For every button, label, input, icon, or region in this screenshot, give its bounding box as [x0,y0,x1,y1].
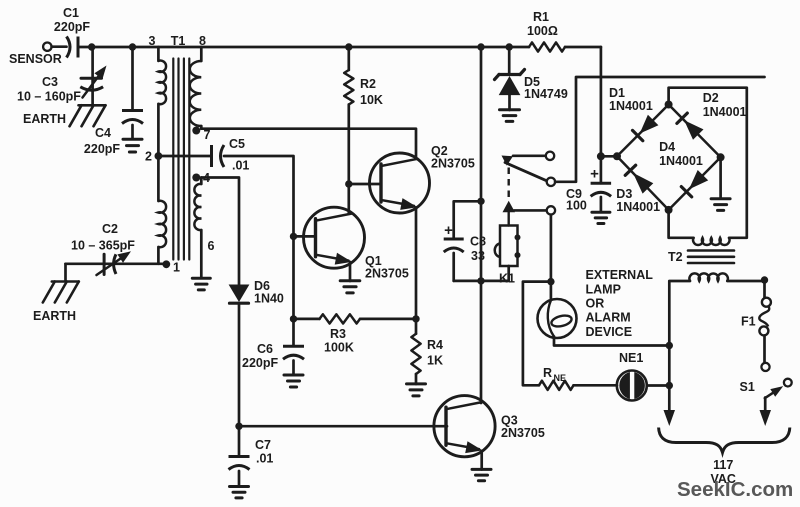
svg-text:T2: T2 [668,250,683,264]
wire Q2 emitter to R4 [415,208,418,319]
resistor R2 [344,47,383,184]
neon lamp NE1 [617,351,647,401]
svg-text:DEVICE: DEVICE [586,325,633,339]
svg-text:C2: C2 [102,222,118,236]
ground under C6 [284,375,303,387]
node pin 1 [162,260,180,274]
ground under Q1 [340,281,360,293]
svg-text:1N4001: 1N4001 [616,200,660,214]
svg-text:D4: D4 [659,140,675,154]
resistor R3 [294,314,417,354]
svg-text:T1: T1 [171,34,186,48]
wire relay bottom contact to lamp [550,215,553,300]
svg-text:R2: R2 [360,77,376,91]
node R3/R4 junction [412,315,419,322]
svg-text:EARTH: EARTH [33,309,76,323]
svg-text:100: 100 [566,199,587,213]
svg-text:1N4001: 1N4001 [659,154,703,168]
node R2 top [345,43,352,50]
svg-text:S1: S1 [740,380,755,394]
node Q1 base junction [290,233,297,240]
wire pin1 to C2 [66,264,167,282]
node C8 bottom [477,277,484,284]
diode D1 [609,86,658,141]
node R3/C6 junction [290,315,297,322]
arrow AC right [760,410,772,426]
svg-text:.01: .01 [232,159,249,173]
fuse F1 [741,280,771,363]
svg-text:2: 2 [145,150,152,164]
capacitor C3 variable [17,47,107,105]
capacitor C7 [229,438,274,486]
svg-text:1N4001: 1N4001 [703,105,747,119]
ground under pin 6 [192,278,210,290]
node bridge left [597,152,621,160]
ground under C7 [230,487,249,498]
svg-text:F1: F1 [741,315,756,329]
svg-text:D2: D2 [703,91,719,105]
node C8 top [477,198,484,205]
wire T2 primary left [669,281,690,411]
svg-text:1K: 1K [427,354,443,368]
wire Q1 base [294,235,316,238]
wire C5 to Q1 base and R3 [224,156,294,319]
svg-text:C7: C7 [255,438,271,452]
node bridge top [665,101,673,109]
diode D4 [659,140,708,197]
svg-text:D3: D3 [616,187,632,201]
wire T2 secondary right loop [669,88,747,238]
svg-text:C5: C5 [229,137,245,151]
node C7 junction [235,423,242,430]
wire rail to bridge [601,47,617,156]
relay contact middle [547,178,555,186]
svg-text:R3: R3 [330,327,346,341]
transformer T1 core [173,59,189,260]
node lamp/Rne junction [547,278,554,285]
wire T2 primary right [727,280,764,283]
wire lamp bottom [554,337,669,346]
svg-text:R1: R1 [533,10,549,24]
svg-text:1: 1 [173,261,180,275]
relay K1 armature lower [503,201,547,213]
node D5 junction [506,43,513,50]
svg-text:C8: C8 [470,235,486,249]
resistor R4 [411,319,443,384]
diode D3 [616,165,660,214]
svg-text:220pF: 220pF [54,20,90,34]
svg-text:EXTERNAL: EXTERNAL [586,268,654,282]
svg-text:2N3705: 2N3705 [501,426,545,440]
svg-text:SENSOR: SENSOR [9,52,62,66]
svg-text:100Ω: 100Ω [527,24,558,38]
svg-text:220pF: 220pF [84,142,120,156]
svg-text:1N4001: 1N4001 [609,99,653,113]
node pin 4 [192,171,210,185]
transistor Q3 [434,396,545,457]
svg-text:10 – 365pF: 10 – 365pF [71,239,135,253]
wire Q1 emitter to ground [349,262,352,281]
resistor R1 [527,10,565,52]
earth symbol lower [33,282,79,324]
svg-text:7: 7 [204,128,211,142]
capacitor C4 [84,47,143,156]
node junction C1/C3 [88,43,95,50]
diode D5 zener [495,47,568,110]
wire pin7 to Q2 collector [201,129,416,159]
svg-text:EARTH: EARTH [23,112,66,126]
brace 117 VAC [659,428,790,487]
svg-text:2N3705: 2N3705 [431,157,475,171]
transformer T1 primary winding upper [158,47,166,201]
ground under D5 [500,110,520,122]
relay contact top [546,152,554,160]
svg-text:LAMP: LAMP [586,283,621,297]
wire bridge bottom to T2 secondary [669,210,694,238]
transformer T1 secondary winding 4-6 [194,178,214,279]
svg-text:C3: C3 [42,75,58,89]
svg-text:33: 33 [471,249,485,263]
svg-text:10 – 160pF: 10 – 160pF [17,90,81,104]
transformer T2 core [688,251,734,264]
node AC right [761,276,768,283]
ground under C4 [123,139,142,152]
node bridge bottom [665,206,673,214]
transistor Q1 [304,207,409,280]
transistor Q2 [370,144,475,213]
capacitor C8 [444,201,486,281]
svg-text:100K: 100K [324,341,354,355]
wire Q1 collector [347,184,350,214]
wire pin4 to D6 [201,178,239,285]
resistor Rne [523,282,617,390]
ground under R4 [407,384,426,396]
relay K1 dashed linkage [508,168,510,200]
svg-text:1N4749: 1N4749 [524,87,568,101]
svg-text:C1: C1 [63,6,79,20]
wire bridge right to ground [719,157,722,198]
svg-text:C4: C4 [95,126,111,140]
svg-text:NE1: NE1 [619,351,643,365]
transformer T2 label [668,250,683,264]
node R2 bottom / Q2 base [345,180,352,187]
svg-text:ALARM: ALARM [586,311,631,325]
svg-text:D1: D1 [609,86,625,100]
wire Q3 emitter to ground [480,451,483,470]
svg-text:+: + [444,222,453,239]
node pin 7 [192,127,210,143]
capacitor C9 [566,156,611,212]
wire pin2 to C5 [158,155,211,158]
svg-text:K1: K1 [499,272,515,286]
svg-text:10K: 10K [360,93,383,107]
node pin 2 [145,150,162,164]
wire NE1 right [647,384,670,387]
svg-text:2N3705: 2N3705 [365,267,409,281]
svg-text:OR: OR [586,297,605,311]
ground under C9 [592,212,610,223]
diode D2 [677,91,747,140]
svg-text:R: R [543,366,552,380]
capacitor C1 [54,6,90,58]
svg-text:220pF: 220pF [242,356,278,370]
relay contact bottom [547,206,555,214]
transformer T1 label [149,34,207,48]
svg-text:C6: C6 [257,342,273,356]
capacitor C2 variable [71,222,135,275]
svg-text:3: 3 [149,34,156,48]
svg-text:6: 6 [208,239,215,253]
svg-text:+: + [590,166,599,183]
node lamp line/T2 left [666,342,673,349]
wire to Q3 base [239,425,447,428]
wire top supply rail [79,46,601,49]
node main/rail [477,43,484,50]
svg-text:.01: .01 [256,452,273,466]
node bridge right [717,153,725,161]
transformer T1 secondary winding 8-7 [190,47,202,129]
svg-text:117: 117 [713,458,733,472]
relay K1 coil [454,212,521,285]
arrow AC left [664,410,676,426]
node junction C1/C4 [129,43,136,50]
svg-text:R4: R4 [427,338,443,352]
wire Q3 collector main line [480,47,483,403]
terminal SENSOR [9,43,67,67]
relay K1 armature upper [502,156,548,182]
svg-text:SeekIC.com: SeekIC.com [677,478,793,501]
svg-text:1N40: 1N40 [254,292,284,306]
svg-text:8: 8 [199,34,206,48]
svg-text:NE: NE [554,373,567,383]
switch S1 [740,363,792,412]
watermark SeekIC.com [677,478,793,501]
ground under Q3 [472,469,491,480]
capacitor C5 [212,137,250,173]
diode D6 [229,279,284,306]
lamp external [538,299,577,338]
node NE1/T2 left [666,382,673,389]
ground under bridge right [711,199,730,211]
transformer T2 secondary [693,238,729,245]
transformer T1 primary winding lower [158,201,166,264]
capacitor C6 [242,319,304,375]
wire D6 to C7/Q3 base [238,303,241,456]
wire Q2 base [349,183,381,186]
wire relay middle contact to AC line [555,77,764,182]
earth symbol upper [23,105,106,126]
wire bridge edges [617,105,721,210]
label external lamp [586,268,654,339]
transformer T2 primary [689,273,727,281]
